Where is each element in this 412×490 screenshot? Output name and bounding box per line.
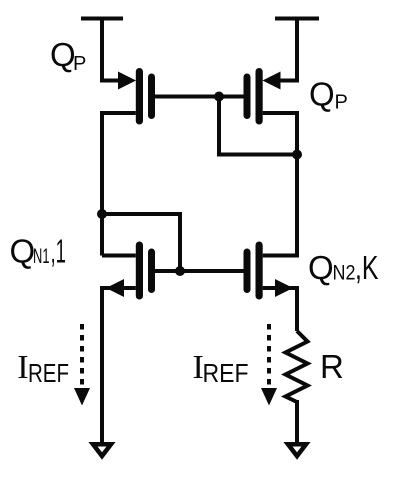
pmos QP left: source arrow — [118, 72, 136, 90]
node D junction dot — [175, 266, 185, 276]
label IREF left — [17, 349, 69, 388]
svg-text:N1: N1 — [33, 245, 50, 268]
current arrow IREF left (dashed) — [74, 324, 90, 406]
nmos QN1: gate bar — [148, 249, 155, 294]
svg-text:R: R — [320, 348, 344, 385]
wire: QN2 source down to resistor R — [295, 286, 299, 331]
wire: left VDD to QP left source — [102, 17, 119, 81]
wire: right VDD to QP right source — [280, 17, 297, 81]
wire: QN1 drain — [102, 254, 136, 258]
svg-text:REF: REF — [203, 358, 249, 388]
node A junction dot — [214, 92, 224, 102]
wire: QN1 gate to QN2 gate — [155, 269, 244, 273]
resistor R zigzag — [286, 331, 308, 402]
svg-text:,1: ,1 — [51, 233, 67, 270]
nmos QN2: source arrow — [275, 279, 293, 297]
wire: QP right drain down to node B — [263, 113, 297, 155]
wire: QP left gate to node A — [155, 95, 219, 99]
pmos QP left: gate bar — [148, 74, 155, 120]
ground right — [288, 444, 306, 456]
label QN1,1 — [10, 233, 67, 270]
wire: resistor R to ground — [295, 400, 299, 442]
nmos QN2: gate bar — [244, 249, 251, 294]
node B junction dot — [292, 150, 302, 160]
wire: QP left drain down left column — [102, 113, 136, 256]
wire: node A to QP right gate — [219, 95, 244, 99]
wire: QN1 source down to ground — [100, 286, 104, 442]
pmos QP right: gate bar — [244, 74, 251, 120]
svg-text:Q: Q — [10, 233, 36, 270]
label R — [320, 348, 344, 385]
svg-text:I: I — [17, 349, 28, 386]
wire: node C to NMOS gates — [102, 214, 180, 271]
svg-text:Q: Q — [308, 249, 334, 286]
label QN2,K — [308, 249, 379, 286]
svg-text:Q: Q — [309, 76, 335, 113]
wire: QN1 source — [102, 286, 136, 290]
svg-text:P: P — [73, 53, 86, 75]
wire: node A down and right to node B — [219, 95, 297, 155]
VDD supply rail left — [81, 17, 123, 21]
label QP right — [309, 76, 348, 114]
svg-text:,K: ,K — [355, 249, 379, 286]
wire: QN2 source — [263, 286, 297, 290]
VDD supply rail right — [275, 17, 319, 21]
svg-text:N2: N2 — [333, 262, 356, 285]
node C junction dot — [97, 209, 107, 219]
pmos QP left: channel bar — [136, 68, 143, 125]
svg-text:P: P — [335, 92, 348, 114]
pmos QP right: source arrow — [263, 72, 281, 90]
svg-text:Q: Q — [50, 36, 76, 73]
nmos QN1: source arrow — [106, 279, 124, 297]
nmos QN2: channel bar — [256, 242, 263, 300]
label IREF right — [193, 349, 249, 388]
nmos QN1: channel bar — [136, 242, 143, 300]
wire: node B down to QN2 drain — [263, 155, 297, 256]
current arrow IREF right (dashed) — [261, 324, 277, 406]
label QP left — [50, 36, 86, 75]
svg-text:REF: REF — [28, 358, 69, 388]
pmos QP right: channel bar — [256, 68, 263, 125]
ground left — [93, 444, 111, 456]
